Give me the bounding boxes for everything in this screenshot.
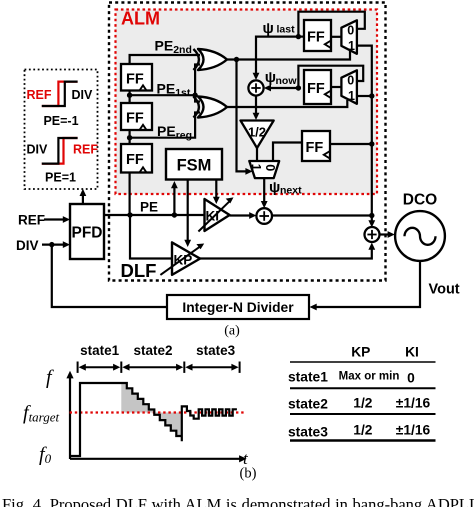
table line 4 bbox=[290, 439, 436, 441]
amplifier KP (variable gain) bbox=[172, 242, 200, 275]
node trunk-KI junction bbox=[369, 213, 374, 218]
svg-text:1/2: 1/2 bbox=[353, 396, 373, 411]
wire FF6 to trunk bbox=[330, 143, 372, 145]
svg-text:1: 1 bbox=[348, 89, 355, 103]
table line 1 bbox=[290, 361, 436, 363]
node PEreg junction bbox=[127, 135, 132, 140]
svg-text:0: 0 bbox=[407, 371, 415, 386]
flip-flop FF4 (psi_last) bbox=[304, 20, 331, 51]
wire XOR2 output to mux2 select bbox=[227, 100, 347, 107]
flip-flop FF1 bbox=[121, 64, 152, 91]
REF edge trace (red, rises first) bbox=[42, 82, 78, 106]
divider Integer-N bbox=[167, 295, 309, 319]
svg-text:PE: PE bbox=[140, 200, 158, 215]
svg-text:DIV: DIV bbox=[27, 143, 49, 157]
svg-text:±1/16: ±1/16 bbox=[396, 423, 431, 438]
oscillator DCO bbox=[395, 211, 445, 261]
wire FF1-FF2 bbox=[129, 91, 131, 104]
table line 2 bbox=[290, 387, 436, 389]
svg-text:1/2: 1/2 bbox=[353, 423, 373, 438]
svg-text:state1: state1 bbox=[80, 343, 120, 358]
svg-text:ALM: ALM bbox=[121, 9, 160, 29]
adder U4 (DCO input sum) bbox=[365, 227, 380, 242]
node select branch junction bbox=[234, 57, 239, 62]
wire REF to PFD bbox=[44, 218, 64, 220]
wire PE down to KP input bbox=[130, 215, 172, 259]
graph f axis bbox=[69, 377, 71, 459]
FSM U2 bbox=[166, 149, 222, 180]
flip-flop FF3 bbox=[121, 144, 152, 173]
wire mux1 output to FF4 bbox=[331, 36, 341, 38]
node trunk mux2 junction bbox=[369, 93, 374, 98]
wire psi_last node to FF4 bbox=[298, 35, 304, 37]
wire PE1st bbox=[130, 94, 196, 96]
svg-text:state3: state3 bbox=[196, 343, 236, 358]
svg-text:REF: REF bbox=[27, 88, 52, 102]
wire FF6 to mux3 input bbox=[273, 143, 302, 162]
node trunk FF6 junction bbox=[369, 141, 374, 146]
wire psi_last to psi_now adder (down arrow) bbox=[256, 37, 298, 74]
svg-text:Max or min: Max or min bbox=[339, 371, 400, 383]
svg-text:PE=1: PE=1 bbox=[45, 171, 76, 185]
adder U5 (psi_now sum) bbox=[248, 80, 263, 95]
wire PE (PFD output) bbox=[104, 214, 205, 216]
wire XOR1 input2 / XOR2 input1 tap bbox=[195, 65, 200, 102]
amplifier KI (variable gain) bbox=[205, 199, 230, 231]
wire psi_last loop to mux1 input 0 bbox=[298, 12, 364, 37]
svg-text:PFD: PFD bbox=[72, 225, 103, 242]
svg-text:0: 0 bbox=[347, 74, 354, 88]
svg-text:1/2: 1/2 bbox=[248, 125, 266, 140]
svg-text:last: last bbox=[277, 24, 296, 36]
wire PE up to FSM (arrow) bbox=[173, 187, 175, 215]
graph state3 span arrow bbox=[190, 366, 236, 368]
svg-text:KP: KP bbox=[351, 345, 370, 360]
wire select down to psi-next mux (arrow) bbox=[237, 60, 248, 172]
wire XOR1 output to mux1 select bbox=[227, 51, 350, 60]
DIV edge trace (black, rises later) bbox=[42, 82, 78, 106]
DIV edge trace bottom (black, rises first) bbox=[42, 138, 78, 164]
svg-text:DCO: DCO bbox=[403, 192, 437, 209]
REF edge trace bottom (red, rises later) bbox=[42, 138, 78, 164]
divider-by-2 triangle bbox=[241, 121, 274, 149]
svg-text:FF: FF bbox=[307, 81, 325, 97]
DLF dashed box bbox=[109, 3, 386, 281]
svg-text:ψ: ψ bbox=[269, 179, 280, 196]
svg-text:1: 1 bbox=[249, 164, 263, 171]
node psi_now bbox=[296, 85, 301, 90]
PFD U1 bbox=[70, 204, 104, 259]
wire mux3 output psi_next (down arrow) bbox=[263, 178, 265, 202]
graph t axis bbox=[70, 458, 241, 460]
svg-text:DLF: DLF bbox=[121, 260, 157, 281]
svg-text:DIV: DIV bbox=[16, 238, 39, 253]
wire adder to DCO (arrow) bbox=[380, 233, 390, 235]
flip-flop FF5 (psi_now) bbox=[304, 70, 331, 104]
wire PFD to legend box (arrow up) bbox=[82, 194, 84, 204]
svg-text:now: now bbox=[276, 75, 298, 87]
gate XOR1 bbox=[198, 49, 227, 70]
svg-text:FF: FF bbox=[126, 152, 144, 168]
shaded region above f_target bbox=[121, 383, 154, 413]
svg-text:FF: FF bbox=[306, 140, 324, 156]
wire PEreg bbox=[130, 113, 200, 138]
table line 3 bbox=[290, 413, 436, 415]
node psi_last bbox=[296, 34, 301, 39]
svg-text:FF: FF bbox=[126, 111, 144, 127]
svg-text:FSM: FSM bbox=[177, 157, 212, 175]
wire FF3 down to PE wire bbox=[129, 173, 131, 216]
svg-text:FF: FF bbox=[307, 30, 325, 46]
svg-text:ψ: ψ bbox=[263, 20, 274, 37]
wire mux2 input 1 from trunk bbox=[357, 95, 372, 97]
mux M2 (psi_now) bbox=[341, 70, 357, 104]
svg-text:state1: state1 bbox=[288, 370, 328, 385]
frequency waveform bbox=[71, 383, 237, 456]
waveform legend dotted box bbox=[25, 70, 98, 190]
svg-text:±1/16: ±1/16 bbox=[396, 396, 431, 411]
svg-text:KI: KI bbox=[405, 345, 419, 360]
svg-text:state3: state3 bbox=[288, 425, 328, 440]
svg-text:Vout: Vout bbox=[429, 282, 460, 298]
wire trunk into right adder (down arrow) bbox=[371, 216, 373, 222]
svg-text:REF: REF bbox=[73, 143, 98, 157]
wire psi_now loop to mux2 input 0 bbox=[298, 66, 363, 88]
mux M3 (psi_next) bbox=[249, 161, 279, 178]
ALM red dashed box (gray fill) bbox=[116, 10, 378, 195]
svg-text:REF: REF bbox=[18, 213, 45, 228]
flip-flop FF6 bbox=[302, 131, 330, 161]
wire KP output to right adder (up arrow) bbox=[200, 248, 372, 259]
target frequency red dotted line bbox=[70, 411, 244, 413]
wire mux2 output to FF5 bbox=[331, 86, 341, 88]
svg-text:FF: FF bbox=[126, 72, 144, 88]
svg-text:0: 0 bbox=[347, 24, 354, 38]
graph interval ticks bbox=[77, 362, 79, 373]
node FSM input junction bbox=[172, 212, 177, 217]
svg-text:PE=-1: PE=-1 bbox=[43, 114, 78, 128]
svg-text:(a): (a) bbox=[224, 324, 240, 339]
svg-text:Fig. 4. Proposed DLF with ALM: Fig. 4. Proposed DLF with ALM is demonst… bbox=[2, 495, 474, 507]
wire FF1 to PE2nd line bbox=[130, 55, 200, 64]
wire KI to adder (arrow) bbox=[230, 214, 251, 216]
svg-text:state2: state2 bbox=[133, 343, 172, 358]
mux M1 (psi_last) bbox=[341, 20, 357, 54]
adder U3 (KI sum) bbox=[256, 208, 272, 224]
node DIV feedback junction bbox=[49, 242, 54, 247]
svg-text:0: 0 bbox=[263, 164, 277, 171]
flip-flop FF2 bbox=[121, 103, 152, 130]
wire adder to divide-by-2 (down arrow) bbox=[255, 96, 257, 115]
svg-text:(b): (b) bbox=[240, 466, 257, 482]
node PE1st junction bbox=[127, 93, 132, 98]
svg-text:next: next bbox=[280, 185, 302, 197]
svg-text:1: 1 bbox=[348, 39, 355, 53]
wire FSM to KP (arrow down) bbox=[187, 180, 189, 242]
wire adder to trunk bbox=[272, 214, 372, 216]
gate XOR2 bbox=[198, 97, 227, 118]
wire FF2-FF3 bbox=[129, 130, 131, 144]
graph state2 span arrow bbox=[126, 366, 181, 368]
shaded region below f_target bbox=[154, 413, 182, 442]
svg-text:ψ: ψ bbox=[265, 69, 276, 86]
wire DCO Vout to divider (arrow left) bbox=[314, 261, 420, 307]
wire divider feedback to DIV bbox=[52, 245, 167, 307]
wire DIV to PFD bbox=[42, 244, 64, 246]
node PE branch junction bbox=[127, 212, 132, 217]
wire psi_now to adder (left arrow) bbox=[269, 87, 298, 89]
wire mux1 input 1 from trunk bbox=[357, 46, 372, 216]
node XOR taps junction bbox=[192, 93, 197, 98]
svg-text:DIV: DIV bbox=[72, 88, 94, 102]
wire FSM to KI (arrow down) bbox=[215, 180, 217, 199]
svg-text:state2: state2 bbox=[288, 397, 328, 412]
svg-text:Integer-N Divider: Integer-N Divider bbox=[182, 300, 294, 315]
wire 1/2 to mux3 bbox=[256, 148, 258, 161]
graph state1 span arrow bbox=[82, 366, 117, 368]
